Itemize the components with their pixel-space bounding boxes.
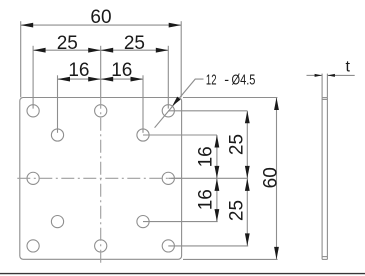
svg-text:t: t bbox=[345, 59, 350, 76]
hole top-left bbox=[27, 105, 39, 117]
svg-text:25: 25 bbox=[124, 33, 145, 54]
side view left edge bbox=[321, 98, 323, 260]
hole top-right bbox=[162, 105, 174, 117]
svg-text:25: 25 bbox=[227, 200, 248, 221]
arrow 16col top up bbox=[215, 135, 220, 148]
plate outline front view bbox=[20, 98, 182, 260]
arrow width60 left bbox=[21, 23, 34, 28]
arrow 25row outer-right bbox=[156, 48, 169, 53]
arrow 60col top up bbox=[274, 98, 279, 111]
arrow 60col bottom down bbox=[274, 247, 279, 260]
dimension line t left segment bbox=[307, 74, 323, 76]
dimension line width 60 bbox=[21, 24, 182, 26]
hole middle-right bbox=[162, 172, 174, 184]
svg-text:16: 16 bbox=[196, 189, 217, 210]
dimension line 25 25 vertical bbox=[246, 111, 248, 246]
arrow 25row center-left bbox=[88, 48, 101, 53]
extension line inner-left column bbox=[57, 75, 59, 133]
hole inner lower-left bbox=[51, 216, 63, 228]
arrow 16row center-right bbox=[101, 77, 114, 82]
side view right edge bbox=[326, 98, 328, 260]
svg-text:12: 12 bbox=[206, 72, 217, 88]
arrow 16col mid down bbox=[215, 166, 220, 179]
hole bottom-right bbox=[162, 240, 174, 252]
side view top edge bbox=[322, 97, 327, 99]
arrow 16row center-left bbox=[88, 77, 101, 82]
dimension line 60 vertical bbox=[276, 98, 278, 260]
hole bottom-left bbox=[27, 240, 39, 252]
svg-text:-: - bbox=[224, 72, 229, 88]
arrow t left pointing right bbox=[315, 74, 323, 77]
svg-text:16: 16 bbox=[195, 146, 216, 167]
arrow 16col mid up bbox=[215, 178, 220, 191]
side view extension line right for t bbox=[326, 74, 328, 98]
side view bottom inner line bbox=[322, 256, 327, 258]
dimension line t right segment bbox=[327, 74, 354, 76]
arrow 16row outer-right bbox=[131, 77, 144, 82]
dimension line 25 25 row bbox=[33, 49, 168, 51]
extension line inner-right column bbox=[142, 75, 144, 133]
dimension line 16 16 row bbox=[58, 78, 144, 80]
arrow 16col bottom down bbox=[215, 209, 220, 222]
extension line left for width 60 bbox=[20, 21, 22, 97]
hole inner upper-left bbox=[51, 129, 63, 141]
svg-text:60: 60 bbox=[90, 7, 111, 28]
arrow t right pointing left bbox=[327, 74, 335, 77]
hole inner upper-right bbox=[137, 129, 149, 141]
hole top-center bbox=[95, 105, 107, 117]
leader line 12-dia4.5 bbox=[155, 79, 204, 128]
arrow 16row outer-left bbox=[58, 77, 71, 82]
svg-text:16: 16 bbox=[111, 60, 132, 81]
extension line bottom hole row right bbox=[168, 245, 248, 247]
extension line right for width 60 bbox=[180, 21, 182, 97]
bottom frame line bbox=[0, 273, 365, 275]
hole inner lower-right bbox=[137, 216, 149, 228]
side view top inner line bbox=[322, 98, 327, 100]
arrow 25col bottom down bbox=[245, 233, 250, 246]
svg-text:Ø4.5: Ø4.5 bbox=[232, 72, 256, 88]
arrow 25col top up bbox=[245, 111, 250, 124]
extension line center column bbox=[100, 46, 102, 98]
svg-text:60: 60 bbox=[260, 167, 281, 188]
dimension line 16 16 vertical bbox=[216, 135, 218, 222]
extension line center row right bbox=[168, 177, 248, 179]
extension line inner upper row right bbox=[143, 134, 217, 136]
side view extension line left for t bbox=[321, 74, 323, 98]
arrow 25row center-right bbox=[101, 48, 114, 53]
extension line plate bottom right bbox=[183, 258, 278, 260]
extension line inner lower row right bbox=[143, 221, 218, 223]
svg-text:25: 25 bbox=[227, 134, 248, 155]
hole bottom-center bbox=[95, 240, 107, 252]
hole middle-left bbox=[27, 172, 39, 184]
extension line top hole row right bbox=[168, 110, 247, 112]
arrow 25col mid up bbox=[245, 178, 250, 191]
centerline horizontal bbox=[17, 177, 182, 179]
extension line plate top right bbox=[183, 97, 277, 99]
svg-text:16: 16 bbox=[68, 60, 89, 81]
arrow 25col mid down bbox=[245, 166, 250, 179]
arrow width60 right bbox=[169, 23, 182, 28]
arrow leader tip bbox=[172, 97, 180, 107]
extension line outer-right column bbox=[167, 46, 169, 109]
side view bottom edge bbox=[322, 258, 327, 260]
svg-text:25: 25 bbox=[57, 33, 78, 54]
arrow 25row outer-left bbox=[33, 48, 46, 53]
extension line outer-left column bbox=[32, 46, 34, 109]
centerline vertical bbox=[100, 98, 102, 263]
